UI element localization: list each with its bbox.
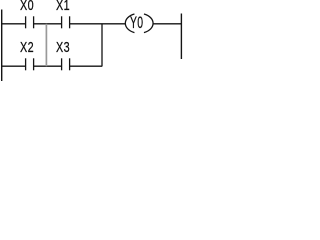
contact X3 bbox=[61, 58, 63, 70]
wire: coil to right rail bbox=[153, 23, 182, 25]
label X1 bbox=[56, 0, 70, 13]
wire: top rung, rail to X0 bbox=[1, 23, 25, 25]
wire: top rung, X1 to coil bbox=[70, 23, 126, 25]
wire: bottom rung, X3 to right branch corner bbox=[70, 65, 102, 67]
wire: top rung, X0 to X1 bbox=[34, 23, 62, 25]
contact X0 bbox=[25, 16, 27, 28]
contact X2 bbox=[25, 58, 27, 70]
label X3 bbox=[56, 40, 70, 55]
wire: bottom rung, X2 to X3 bbox=[34, 65, 62, 67]
wire: bottom rung, rail to X2 bbox=[1, 65, 25, 67]
wire: middle vertical branch (gray) bbox=[45, 24, 47, 66]
contact X1 bbox=[61, 16, 63, 28]
coil Y0 right arc bbox=[144, 14, 153, 33]
right power rail bbox=[180, 14, 182, 60]
label X2 bbox=[20, 40, 34, 55]
coil Y0 left arc bbox=[125, 14, 134, 33]
wire: right vertical branch bbox=[101, 24, 103, 67]
label X0 bbox=[20, 0, 34, 13]
left power rail bbox=[1, 10, 3, 82]
label Y0 bbox=[130, 15, 143, 32]
